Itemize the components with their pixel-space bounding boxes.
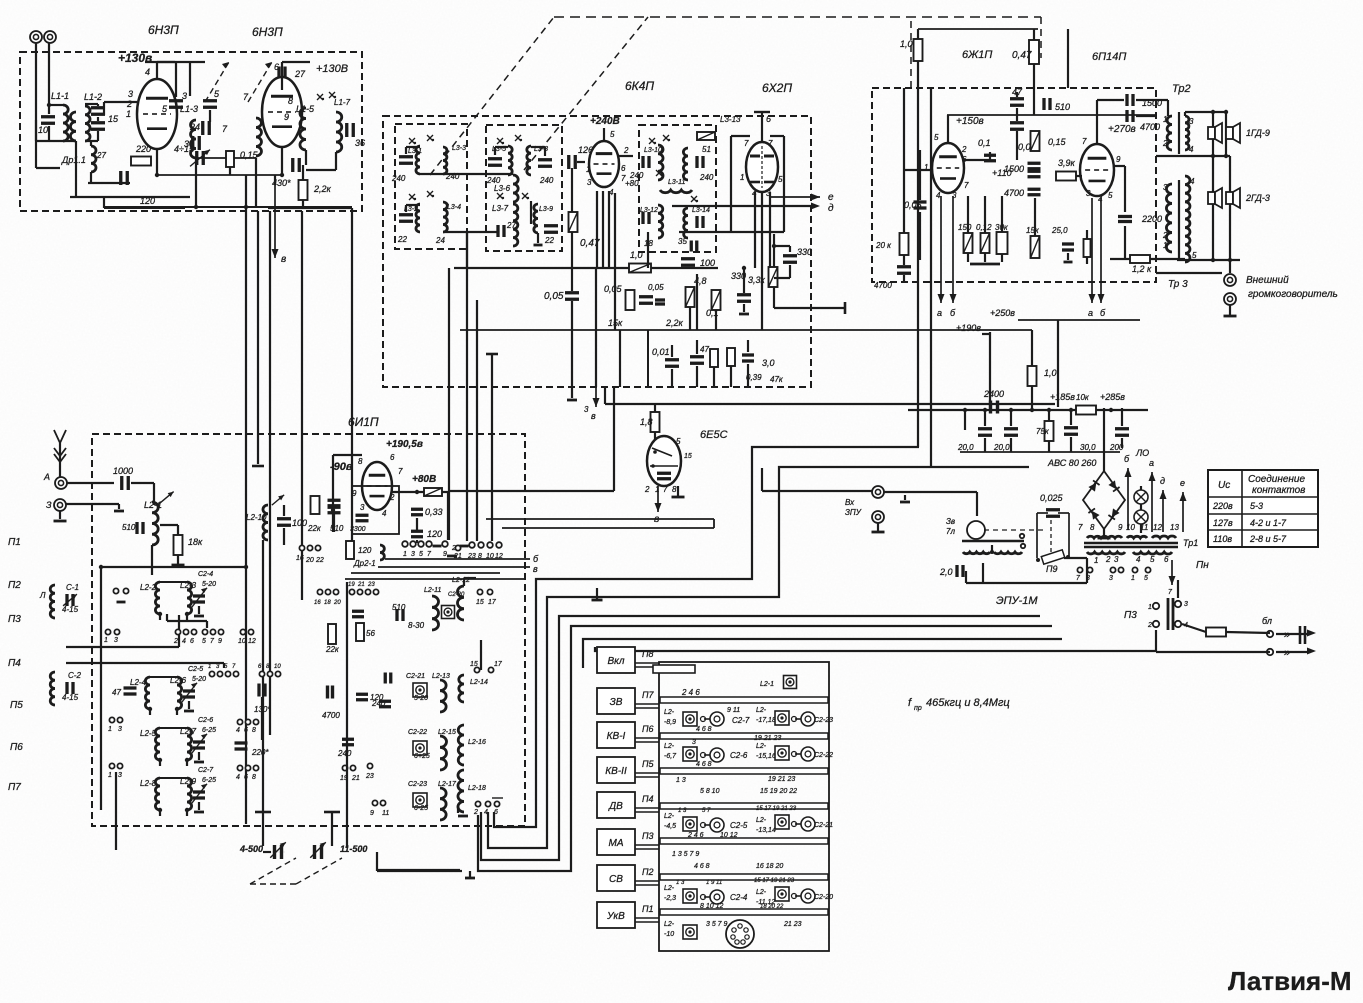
svg-text:16: 16 [314, 600, 321, 606]
svg-text:240: 240 [337, 749, 352, 758]
svg-text:Вх: Вх [845, 498, 855, 507]
svg-text:9: 9 [1116, 155, 1121, 164]
svg-text:L1-7: L1-7 [334, 98, 351, 107]
svg-text:-17,18: -17,18 [756, 717, 776, 724]
svg-text:П3: П3 [1124, 610, 1137, 621]
svg-text:МА: МА [609, 838, 624, 849]
svg-text:1: 1 [104, 637, 108, 644]
svg-text:21: 21 [351, 775, 360, 782]
svg-text:2: 2 [1105, 555, 1111, 564]
svg-text:Пн: Пн [1196, 560, 1209, 571]
svg-text:8: 8 [252, 774, 256, 781]
svg-text:5: 5 [934, 133, 939, 142]
svg-text:120: 120 [140, 196, 155, 206]
svg-text:15к: 15к [1026, 226, 1040, 235]
svg-text:19 21 23: 19 21 23 [768, 776, 795, 783]
svg-text:Вкл: Вкл [607, 656, 624, 667]
svg-text:-2,3: -2,3 [664, 895, 676, 902]
svg-text:240: 240 [699, 173, 714, 182]
svg-text:П4: П4 [8, 658, 21, 669]
svg-text:110в: 110в [1213, 534, 1232, 544]
svg-text:4 6 8: 4 6 8 [696, 761, 712, 768]
svg-text:1,0: 1,0 [1044, 368, 1057, 378]
svg-text:1: 1 [924, 163, 928, 172]
svg-text:П2: П2 [642, 867, 654, 877]
svg-text:П7: П7 [8, 782, 21, 793]
svg-text:1: 1 [208, 664, 211, 670]
svg-text:1: 1 [126, 109, 131, 119]
svg-text:19: 19 [348, 582, 355, 588]
svg-text:д: д [1160, 476, 1165, 486]
svg-text:8: 8 [672, 485, 677, 494]
svg-text:4-2 и 1-7: 4-2 и 1-7 [1250, 518, 1287, 528]
svg-text:L3-6: L3-6 [494, 184, 511, 193]
svg-text:L3-10: L3-10 [644, 147, 662, 154]
svg-text:3: 3 [182, 91, 187, 101]
svg-text:С2-21: С2-21 [406, 673, 425, 680]
svg-text:150: 150 [958, 223, 972, 232]
svg-text:10 12: 10 12 [720, 832, 738, 839]
svg-text:0,05: 0,05 [544, 291, 564, 302]
svg-text:5: 5 [610, 130, 615, 139]
svg-text:L2-: L2- [664, 709, 675, 716]
svg-text:6: 6 [244, 774, 248, 781]
svg-text:8: 8 [252, 727, 256, 734]
svg-text:1: 1 [108, 726, 112, 733]
svg-text:23: 23 [367, 582, 375, 588]
svg-text:240: 240 [391, 174, 406, 183]
svg-text:510: 510 [122, 523, 136, 532]
svg-text:L1-3: L1-3 [180, 104, 198, 114]
svg-text:17: 17 [494, 661, 503, 668]
svg-text:Uc: Uc [1218, 480, 1230, 491]
svg-text:Др2-1: Др2-1 [353, 559, 376, 568]
svg-text:24: 24 [435, 236, 445, 245]
svg-text:21: 21 [357, 582, 365, 588]
svg-text:6Х2П: 6Х2П [762, 81, 792, 95]
svg-text:0,05: 0,05 [604, 284, 623, 294]
svg-text:75к: 75к [1036, 427, 1050, 436]
svg-text:9: 9 [284, 112, 289, 122]
svg-text:С2-23: С2-23 [408, 781, 427, 788]
svg-text:11: 11 [1140, 523, 1148, 532]
svg-text:2: 2 [961, 145, 967, 154]
svg-text:2ГД-3: 2ГД-3 [1245, 193, 1270, 203]
svg-text:П3: П3 [642, 831, 654, 841]
svg-text:1: 1 [403, 551, 407, 558]
svg-text:0,05: 0,05 [904, 200, 923, 210]
svg-text:КВ-I: КВ-I [607, 731, 626, 742]
svg-text:-4,5: -4,5 [664, 823, 676, 830]
svg-text:L2-14: L2-14 [470, 679, 488, 686]
svg-text:5: 5 [778, 175, 783, 184]
svg-text:7л: 7л [946, 527, 955, 536]
svg-text:10: 10 [1126, 523, 1135, 532]
svg-text:1: 1 [1163, 115, 1167, 124]
svg-text:8: 8 [358, 457, 363, 466]
svg-text:10: 10 [486, 553, 494, 560]
svg-text:1,2 к: 1,2 к [1132, 264, 1152, 274]
svg-text:47: 47 [1012, 87, 1023, 97]
svg-text:L2-1: L2-1 [760, 681, 774, 688]
svg-text:-13,14: -13,14 [756, 827, 776, 834]
svg-text:7: 7 [1078, 523, 1083, 532]
svg-text:СВ: СВ [609, 874, 623, 885]
svg-text:6П14П: 6П14П [1092, 51, 1126, 63]
svg-text:7: 7 [398, 467, 403, 476]
svg-text:С2-21: С2-21 [814, 822, 833, 829]
svg-text:+110: +110 [992, 168, 1012, 178]
svg-text:1: 1 [1148, 604, 1152, 611]
svg-text:П1: П1 [8, 537, 21, 548]
svg-text:9: 9 [218, 638, 222, 645]
svg-text:1ГД-9: 1ГД-9 [1246, 128, 1270, 138]
svg-text:4: 4 [1190, 177, 1195, 186]
svg-text:47: 47 [112, 688, 121, 697]
svg-text:4,8: 4,8 [694, 276, 707, 286]
svg-text:-6,7: -6,7 [664, 753, 677, 760]
svg-text:+190,5в: +190,5в [386, 439, 423, 450]
svg-text:15: 15 [476, 599, 484, 606]
svg-text:Л: Л [39, 591, 46, 600]
svg-text:П2: П2 [8, 580, 21, 591]
svg-text:L3-4: L3-4 [447, 204, 461, 211]
svg-text:15: 15 [470, 661, 478, 668]
svg-text:ЗВ: ЗВ [610, 697, 623, 708]
svg-text:1 3: 1 3 [676, 777, 686, 784]
svg-text:2,0: 2,0 [939, 567, 953, 577]
svg-text:0,01: 0,01 [652, 347, 670, 357]
svg-text:240: 240 [539, 176, 554, 185]
svg-text:а: а [937, 308, 942, 318]
svg-text:9: 9 [370, 810, 374, 817]
svg-text:5 7: 5 7 [702, 808, 711, 814]
svg-text:е: е [1180, 478, 1185, 488]
svg-text:5-20: 5-20 [202, 581, 216, 588]
svg-text:6: 6 [621, 164, 626, 173]
svg-text:2: 2 [389, 493, 395, 502]
svg-text:4700: 4700 [1004, 188, 1024, 198]
svg-text:6Н3П: 6Н3П [252, 25, 283, 39]
svg-text:пр: пр [914, 705, 922, 712]
svg-text:П1: П1 [642, 904, 654, 914]
svg-text:17: 17 [488, 599, 497, 606]
svg-text:L2-: L2- [756, 707, 767, 714]
svg-text:Соединение: Соединение [1248, 474, 1305, 485]
svg-text:С2-23: С2-23 [814, 717, 833, 724]
svg-text:4: 4 [382, 509, 387, 518]
svg-text:5-20: 5-20 [192, 676, 206, 683]
svg-text:1 3: 1 3 [678, 808, 687, 814]
svg-text:0,33: 0,33 [425, 507, 443, 517]
svg-text:КВ-II: КВ-II [605, 766, 627, 777]
svg-text:12: 12 [495, 553, 503, 560]
svg-text:20,0: 20,0 [993, 443, 1010, 452]
svg-text:С-1: С-1 [66, 583, 79, 592]
svg-text:6-25: 6-25 [202, 777, 216, 784]
svg-text:П6: П6 [10, 742, 23, 753]
svg-text:4 6 8: 4 6 8 [696, 726, 712, 733]
svg-text:1: 1 [586, 165, 590, 174]
svg-text:51: 51 [702, 145, 711, 154]
svg-text:-15,16: -15,16 [756, 753, 776, 760]
svg-text:4: 4 [182, 638, 186, 645]
svg-text:2-8 и 5-7: 2-8 и 5-7 [1249, 534, 1287, 544]
svg-text:19 21 23: 19 21 23 [754, 735, 781, 742]
svg-text:10: 10 [274, 664, 281, 670]
svg-text:L2-10: L2-10 [246, 513, 267, 522]
svg-text:3: 3 [114, 637, 118, 644]
svg-text:2400: 2400 [983, 389, 1004, 399]
svg-text:13: 13 [1170, 523, 1179, 532]
svg-text:22к: 22к [325, 645, 340, 654]
svg-text:ЗПУ: ЗПУ [845, 508, 862, 517]
svg-text:А: А [43, 472, 50, 482]
svg-text:+285в: +285в [1100, 392, 1125, 402]
svg-text:3: 3 [128, 89, 133, 99]
svg-text:4-15: 4-15 [62, 605, 79, 614]
svg-text:Внешний: Внешний [1246, 275, 1289, 286]
svg-text:д: д [828, 203, 834, 214]
svg-text:6-25: 6-25 [414, 805, 428, 812]
svg-text:2 4 6: 2 4 6 [687, 832, 704, 839]
svg-text:0,025: 0,025 [1040, 493, 1064, 503]
svg-text:ЭПУ-1М: ЭПУ-1М [996, 595, 1038, 607]
svg-text:L2-: L2- [756, 889, 767, 896]
svg-text:9: 9 [1118, 523, 1123, 532]
svg-text:L2-: L2- [664, 885, 675, 892]
svg-text:7: 7 [663, 485, 668, 494]
svg-text:+130В: +130В [316, 63, 348, 75]
svg-text:35: 35 [678, 237, 687, 246]
svg-text:465кгц и 8,4Мгц: 465кгц и 8,4Мгц [926, 697, 1010, 709]
svg-text:5 8 10: 5 8 10 [700, 788, 720, 795]
svg-text:2,2к: 2,2к [313, 184, 332, 194]
svg-text:бл: бл [1262, 616, 1272, 626]
svg-text:1000: 1000 [113, 466, 133, 476]
svg-text:1,8: 1,8 [640, 417, 653, 427]
svg-text:С2-5: С2-5 [188, 666, 203, 673]
svg-text:L2-: L2- [664, 921, 675, 928]
svg-text:1,0: 1,0 [630, 250, 643, 260]
svg-text:З: З [46, 500, 52, 510]
svg-text:L3-3: L3-3 [452, 145, 466, 152]
svg-text:L2-: L2- [756, 817, 767, 824]
svg-text:L2-18: L2-18 [468, 785, 486, 792]
svg-text:3: 3 [411, 551, 415, 558]
svg-text:в: в [533, 564, 538, 574]
svg-text:6К4П: 6К4П [625, 79, 654, 93]
svg-text:2,2к: 2,2к [665, 318, 684, 328]
svg-text:8: 8 [1090, 523, 1095, 532]
svg-text:7: 7 [1082, 137, 1087, 146]
svg-text:7: 7 [768, 139, 773, 148]
svg-text:6: 6 [766, 114, 771, 124]
svg-text:11: 11 [382, 810, 389, 817]
svg-text:L2-5: L2-5 [140, 729, 157, 738]
svg-text:6И1П: 6И1П [348, 415, 379, 429]
svg-text:L2-4: L2-4 [130, 678, 147, 687]
svg-text:22: 22 [315, 557, 324, 564]
svg-text:30,0: 30,0 [1080, 443, 1096, 452]
svg-text:11-500: 11-500 [340, 844, 367, 854]
svg-text:L1-2: L1-2 [84, 92, 102, 102]
svg-text:L3-1: L3-1 [408, 148, 422, 155]
svg-text:4: 4 [1136, 555, 1141, 564]
svg-text:6: 6 [274, 62, 279, 72]
svg-text:Латвия-М: Латвия-М [1228, 966, 1352, 996]
svg-text:27: 27 [96, 151, 106, 160]
svg-text:56: 56 [366, 629, 375, 638]
svg-text:120: 120 [358, 546, 372, 555]
svg-text:330: 330 [797, 247, 812, 257]
svg-text:Тр2: Тр2 [1172, 83, 1191, 95]
svg-text:4700: 4700 [1140, 122, 1160, 132]
svg-text:3: 3 [584, 405, 589, 414]
svg-text:18: 18 [324, 600, 331, 606]
svg-text:18к: 18к [188, 537, 203, 547]
svg-text:5: 5 [676, 437, 681, 446]
svg-text:2 4 6: 2 4 6 [681, 688, 700, 697]
svg-text:ЛО: ЛО [1135, 448, 1149, 458]
svg-text:9: 9 [352, 489, 357, 498]
svg-text:8-30: 8-30 [408, 621, 425, 630]
svg-text:23: 23 [467, 553, 476, 560]
svg-text:Др1.1: Др1.1 [61, 155, 86, 165]
svg-text:3: 3 [1109, 575, 1113, 582]
svg-text:1: 1 [1163, 241, 1167, 250]
svg-text:2: 2 [623, 146, 629, 155]
svg-text:100: 100 [292, 518, 307, 528]
svg-text:240: 240 [371, 699, 386, 708]
svg-text:22: 22 [397, 235, 407, 244]
svg-text:П3: П3 [8, 614, 21, 625]
svg-text:С2-7: С2-7 [198, 767, 214, 774]
svg-text:в: в [281, 254, 286, 265]
svg-text:20 к: 20 к [875, 241, 892, 250]
svg-text:510: 510 [330, 524, 344, 533]
svg-text:15: 15 [684, 453, 692, 460]
svg-text:0,05: 0,05 [648, 283, 664, 292]
svg-text:6-25: 6-25 [202, 727, 216, 734]
svg-text:36: 36 [355, 138, 365, 148]
svg-text:3 5 7 9: 3 5 7 9 [706, 921, 728, 928]
svg-text:в: в [591, 411, 596, 421]
svg-text:1 3: 1 3 [676, 880, 685, 886]
svg-text:22: 22 [544, 236, 554, 245]
svg-text:5: 5 [1150, 555, 1155, 564]
svg-text:3: 3 [587, 178, 592, 187]
svg-text:5: 5 [1192, 251, 1197, 260]
svg-text:2: 2 [644, 485, 650, 494]
svg-text:С2-22: С2-22 [814, 752, 833, 759]
svg-text:С2-6: С2-6 [198, 717, 213, 724]
svg-text:5: 5 [1108, 191, 1113, 200]
svg-text:3,9к: 3,9к [1058, 158, 1076, 168]
svg-text:16 18 20: 16 18 20 [756, 863, 783, 870]
svg-text:127в: 127в [1213, 518, 1233, 528]
svg-text:6: 6 [244, 727, 248, 734]
svg-text:5: 5 [1144, 575, 1148, 582]
svg-text:П6: П6 [642, 724, 654, 734]
svg-text:4 6 8: 4 6 8 [694, 863, 710, 870]
svg-text:5-3: 5-3 [1250, 501, 1263, 511]
svg-text:16: 16 [296, 555, 304, 562]
svg-text:18 20 22: 18 20 22 [760, 904, 784, 910]
svg-text:2: 2 [473, 809, 478, 816]
svg-text:контактов: контактов [1252, 485, 1305, 496]
svg-text:220*: 220* [251, 748, 269, 757]
svg-text:2200: 2200 [1141, 214, 1162, 224]
svg-text:L3-12: L3-12 [640, 207, 658, 214]
svg-text:ДВ: ДВ [608, 801, 623, 812]
svg-text:20: 20 [305, 557, 314, 564]
svg-text:510: 510 [392, 603, 406, 612]
svg-text:П5: П5 [10, 700, 23, 711]
svg-text:12: 12 [1153, 523, 1162, 532]
svg-text:5-20: 5-20 [414, 695, 428, 702]
svg-text:100: 100 [700, 258, 715, 268]
svg-text:L3-13: L3-13 [720, 115, 741, 124]
svg-text:П5: П5 [642, 759, 655, 769]
svg-text:10к: 10к [1076, 393, 1090, 402]
svg-text:3: 3 [118, 726, 122, 733]
svg-text:3: 3 [1114, 555, 1119, 564]
svg-text:УкВ: УкВ [606, 911, 625, 922]
svg-text:П9: П9 [1046, 564, 1058, 574]
svg-text:120: 120 [427, 529, 442, 539]
svg-text:15 19 20 22: 15 19 20 22 [760, 788, 797, 795]
svg-text:10: 10 [238, 638, 246, 645]
svg-text:П8: П8 [642, 649, 654, 659]
svg-text:громкоговоритель: громкоговоритель [1248, 289, 1338, 300]
svg-text:4-15: 4-15 [62, 693, 79, 702]
svg-text:4: 4 [236, 727, 240, 734]
svg-text:6: 6 [390, 453, 395, 462]
svg-text:4700: 4700 [874, 281, 892, 290]
svg-text:е: е [828, 192, 834, 203]
svg-text:10: 10 [38, 125, 48, 135]
svg-text:3: 3 [118, 772, 122, 779]
svg-text:220в: 220в [1212, 501, 1233, 511]
svg-text:1500: 1500 [1142, 98, 1162, 108]
svg-text:27: 27 [506, 221, 516, 230]
svg-text:21: 21 [453, 553, 462, 560]
svg-text:21 23: 21 23 [783, 921, 802, 928]
svg-text:47: 47 [700, 345, 709, 354]
svg-text:2: 2 [173, 638, 178, 645]
svg-text:+190в: +190в [956, 323, 981, 333]
svg-text:-8,9: -8,9 [664, 719, 676, 726]
svg-text:Тр 3: Тр 3 [1168, 279, 1188, 290]
svg-text:С2-5: С2-5 [730, 821, 748, 830]
svg-text:47к: 47к [770, 375, 784, 384]
svg-text:С2-22: С2-22 [408, 729, 427, 736]
svg-text:4: 4 [236, 774, 240, 781]
svg-text:240: 240 [629, 171, 644, 180]
svg-text:4÷15: 4÷15 [174, 144, 195, 154]
svg-text:Тр1: Тр1 [1183, 538, 1198, 548]
svg-text:6Н3П: 6Н3П [148, 23, 179, 37]
svg-text:С2-4: С2-4 [730, 893, 748, 902]
svg-text:4-500: 4-500 [239, 844, 263, 854]
svg-text:0,15: 0,15 [1048, 137, 1067, 147]
svg-text:0,1: 0,1 [978, 138, 991, 148]
svg-text:25,0: 25,0 [1051, 226, 1068, 235]
svg-text:200: 200 [1109, 443, 1124, 452]
svg-text:0,47: 0,47 [1012, 50, 1032, 61]
svg-text:3300: 3300 [350, 526, 366, 533]
